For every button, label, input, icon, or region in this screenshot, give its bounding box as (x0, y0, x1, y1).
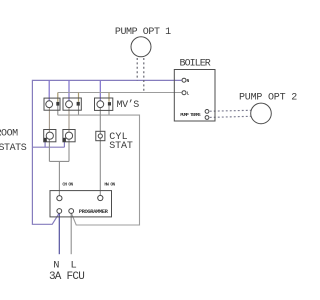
svg-text:STATS: STATS (0, 143, 27, 154)
boiler pump terminal 1 (205, 110, 209, 114)
svg-text:PUMP OPT 2: PUMP OPT 2 (239, 92, 297, 103)
svg-text:BOILER: BOILER (180, 58, 211, 69)
programmer CH ON terminal (57, 196, 62, 201)
wire: mains L drop (grey) (70, 213, 72, 254)
motorised valve MV2 box (63, 98, 81, 110)
wire: dashed pump opt 1 live (143, 58, 145, 93)
svg-text:ROOM: ROOM (0, 129, 18, 140)
wire: live stub (tan) into MV1 square (57, 93, 59, 102)
wire: MV1 to room stat 1 (48, 108, 50, 133)
wire: MV2 square down to collector (78, 105, 80, 115)
programmer N terminal (57, 209, 62, 214)
svg-text:PUMP TERMS: PUMP TERMS (180, 113, 201, 118)
cylinder stat box (96, 131, 105, 140)
MV1 live terminal square (56, 102, 59, 106)
wire: MV3 square down to collector (108, 105, 110, 115)
wire: MV1 square down to collector (57, 105, 59, 115)
wire: MV2 to room stat 2 (68, 108, 70, 133)
wire: dashed boiler pump term 2 to pump opt 2 (210, 116, 252, 117)
room stat 2 dial circle (65, 132, 72, 139)
MV2 motor circle (66, 101, 73, 108)
wire: neutral stub to MV1 circle (48, 80, 50, 100)
motorised valve MV1 box (44, 98, 60, 110)
wire: live bus (grey) from above MV1 square to boiler L terminal (58, 92, 182, 94)
room stat 1 dial circle (46, 132, 53, 139)
wire: room stat 2 down to join (68, 139, 70, 161)
wire: dashed boiler pump term 1 to pump opt 2 (210, 109, 252, 112)
wire: cyl stat down to HW ON terminal (99, 138, 101, 195)
wire: MV3 to cyl stat (99, 108, 101, 135)
wire: neutral stub to MV3 circle (99, 80, 101, 101)
svg-text:N: N (187, 79, 190, 84)
MV3 motor circle (97, 101, 104, 108)
svg-text:CH ON: CH ON (62, 183, 73, 188)
wire: live stub (tan) into MV3 square (108, 93, 110, 102)
svg-text:3A FCU: 3A FCU (49, 271, 84, 283)
MV1 motor circle (46, 101, 53, 108)
svg-text:STAT: STAT (109, 141, 133, 152)
wire: join down to CH ON terminal (58, 161, 60, 195)
room stat 2 neutral square (63, 138, 66, 142)
svg-text:PUMP OPT 1: PUMP OPT 1 (115, 27, 171, 38)
svg-text:HW ON: HW ON (104, 183, 115, 188)
wire: mains N drop (dark blue) (58, 213, 60, 254)
wire: dashed pump opt 1 neutral (136, 58, 138, 80)
wire: neutral bus (blue) boiler N to left edge, down and to programmer N terminal (32, 80, 181, 224)
cylinder stat circle (98, 134, 102, 138)
svg-text:N: N (53, 260, 59, 272)
motorised valve MV3 box (95, 98, 113, 110)
svg-text:MV’S: MV’S (117, 99, 140, 111)
programmer L terminal (69, 209, 74, 214)
MV3 live terminal square (108, 102, 111, 105)
svg-text:L: L (187, 92, 190, 97)
MV2 live terminal square (77, 102, 80, 106)
wire: live stub (tan) into MV2 square (78, 93, 80, 102)
pump P2 circle (251, 103, 272, 124)
boiler terminal L (182, 91, 186, 95)
wire: neutral stub up to room stat 2 square (63, 141, 65, 147)
programmer HW ON terminal (98, 195, 103, 200)
room stat 1 neutral square (44, 138, 47, 142)
wire: switched live collector to programmer L terminal (grey) (58, 115, 140, 225)
wire: room stat 1 down to join (48, 139, 50, 161)
boiler pump terminal 2 (205, 116, 209, 120)
wire: room stats neutral branch (blue) (32, 146, 64, 148)
svg-text:L: L (70, 260, 76, 272)
boiler box (174, 70, 215, 122)
wire: room stats join bar (49, 160, 69, 162)
wire: neutral stub up to room stat 1 square (44, 141, 46, 147)
room stat 2 box (63, 130, 75, 142)
programmer box (50, 191, 112, 217)
svg-text:PROGRAMMER: PROGRAMMER (79, 208, 109, 215)
boiler terminal N (182, 78, 186, 82)
room stat 1 box (44, 130, 56, 142)
wire: neutral stub to MV2 circle (68, 80, 70, 100)
pump P1 circle (131, 37, 151, 57)
